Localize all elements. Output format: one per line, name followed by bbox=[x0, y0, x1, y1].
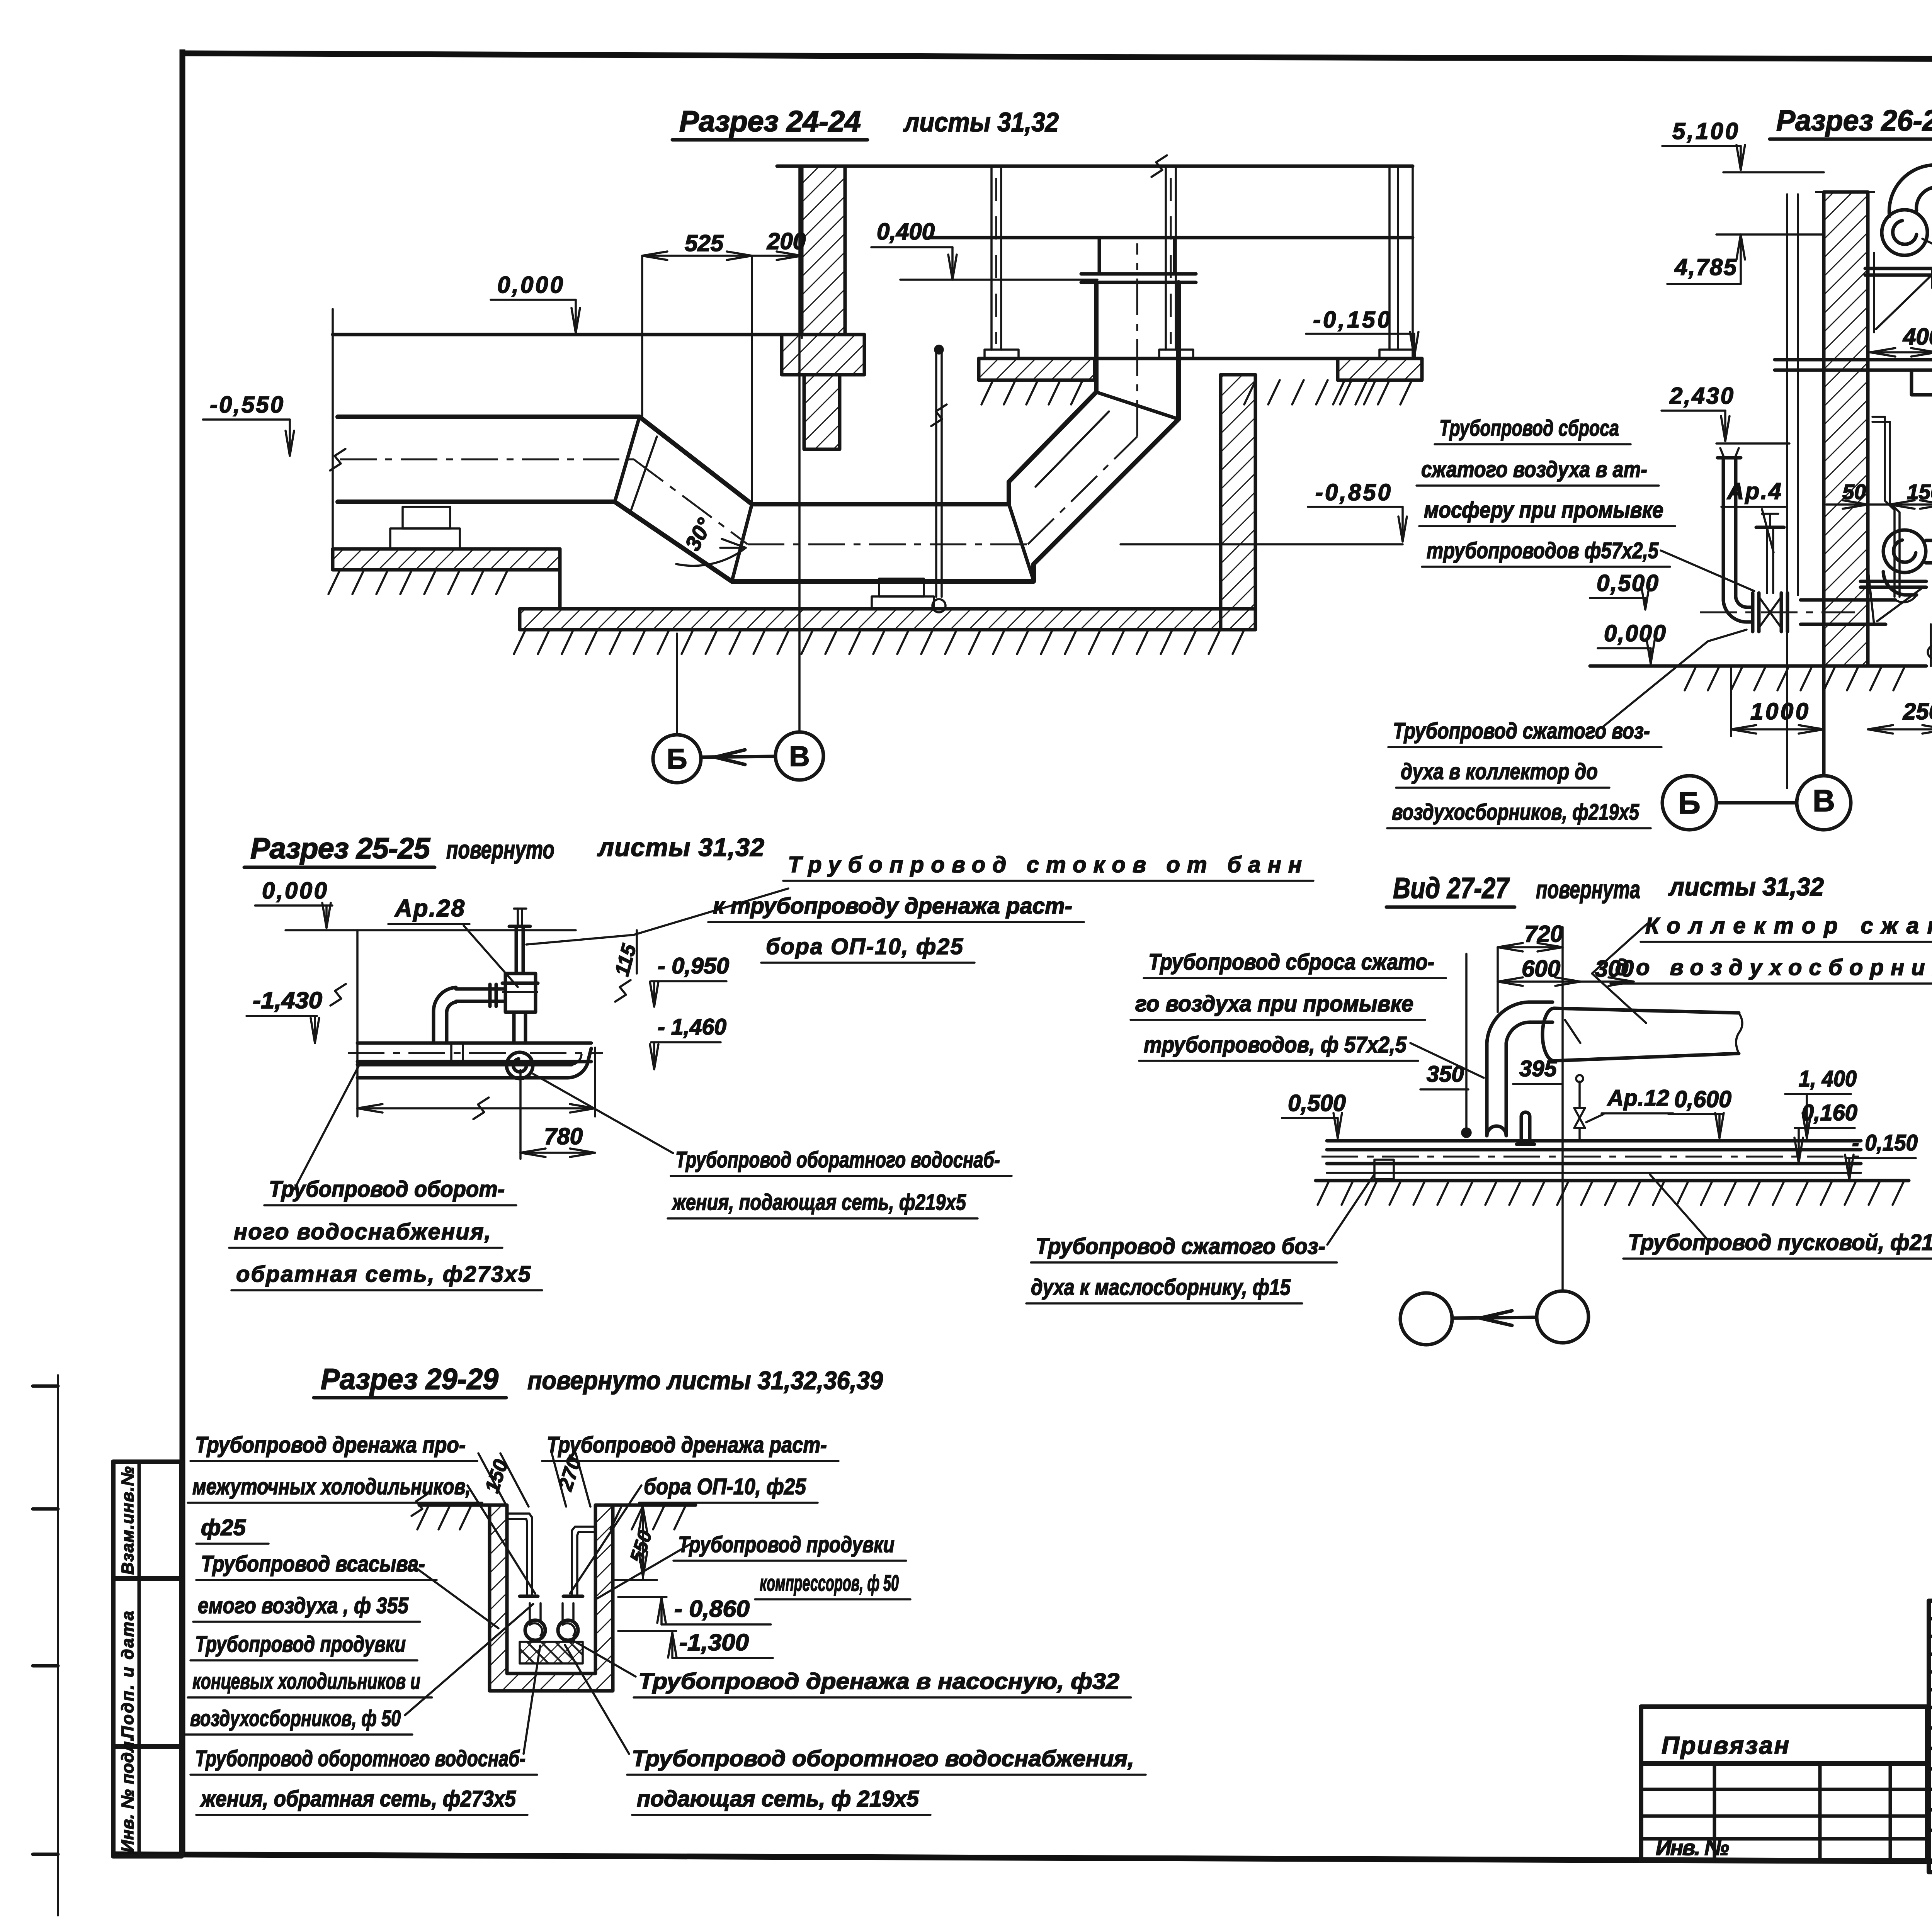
ground line left 29-29 bbox=[412, 1494, 490, 1529]
level mark -1.300 29-29 bbox=[618, 1629, 773, 1658]
svg-text:0,500: 0,500 bbox=[1288, 1090, 1346, 1116]
return water pipe 273x5 25-25 bbox=[357, 1043, 591, 1062]
svg-text:емого воздуха , ф 355: емого воздуха , ф 355 bbox=[198, 1593, 409, 1618]
svg-text:- 1,460: - 1,460 bbox=[658, 1014, 726, 1040]
svg-text:5,100: 5,100 bbox=[1672, 118, 1738, 144]
steel column A 24-24 bbox=[985, 166, 1019, 358]
blowoff pipe elbow 57x2.5 27-27 bbox=[1487, 1002, 1553, 1136]
svg-text:1, 400: 1, 400 bbox=[1799, 1066, 1857, 1091]
collector flange circle lower 26-26 bbox=[1883, 530, 1926, 573]
svg-text:Трубопровод оборотного во: Трубопровод оборотного водоснаб- bbox=[195, 1746, 526, 1771]
level mark -0.150 right bbox=[1306, 307, 1418, 357]
svg-text:духа в коллектор до: духа в коллектор до bbox=[1401, 759, 1598, 784]
steel column B 24-24 bbox=[1159, 166, 1193, 358]
view 29-29 title bbox=[314, 1363, 883, 1398]
svg-text:листы 31,32: листы 31,32 bbox=[597, 833, 764, 861]
svg-text:повернута: повернута bbox=[1536, 875, 1640, 904]
svg-text:Трубопровод всасыва-: Трубопровод всасыва- bbox=[201, 1551, 425, 1577]
sump block crosshatched 29-29 bbox=[520, 1642, 583, 1663]
svg-text:повернуто: повернуто bbox=[446, 835, 554, 864]
svg-text:Трубопровод продувки: Трубопровод продувки bbox=[195, 1632, 406, 1657]
pedestal support left 24-24 bbox=[390, 507, 460, 549]
svg-text:Трубопровод сброса: Трубопровод сброса bbox=[1439, 416, 1619, 441]
leaders 29-29 bbox=[405, 1485, 692, 1754]
label starting pipe 27-27 bbox=[1623, 1230, 1932, 1259]
hatched wall 26-26 bbox=[1816, 192, 1874, 776]
label drainage intermediate coolers bbox=[188, 1432, 482, 1544]
long section line through 27-27 bbox=[1561, 927, 1564, 1291]
svg-text:Инв. №: Инв. № bbox=[1656, 1835, 1729, 1860]
collector flange circle upper 26-26 bbox=[1882, 210, 1927, 255]
svg-text:повернуто листы 31,32,36,39: повернуто листы 31,32,36,39 bbox=[527, 1366, 883, 1395]
svg-text:Разрез 29-29: Разрез 29-29 bbox=[321, 1363, 498, 1396]
leader collector 27-27 bbox=[1592, 924, 1647, 1023]
valve Ar.12 27-27 bbox=[1574, 1075, 1585, 1141]
svg-text:Б: Б bbox=[1678, 786, 1701, 820]
dim 395 27-27 bbox=[1513, 1056, 1561, 1084]
valve stem 25-25 bbox=[509, 909, 530, 973]
leader oil collector 27-27 bbox=[1327, 1174, 1375, 1245]
dimension 780 25-25 bbox=[520, 1070, 595, 1159]
svg-text:Трубопровод сжатого боз-: Трубопровод сжатого боз- bbox=[1036, 1234, 1325, 1259]
label blowoff pipe to atmosphere bbox=[1417, 416, 1675, 567]
upper horizontal duct 24-24 bbox=[330, 417, 639, 502]
svg-text:0,160: 0,160 bbox=[1801, 1100, 1857, 1125]
level line 2.430 bbox=[1716, 442, 1789, 445]
angle 30 annotation bbox=[676, 514, 746, 566]
view 27-27 title bbox=[1386, 872, 1824, 907]
svg-text:жения, подающая сеть, ф219х5: жения, подающая сеть, ф219х5 bbox=[672, 1190, 966, 1215]
svg-text:Трубопровод сжатого воз-: Трубопровод сжатого воз- bbox=[1393, 719, 1650, 744]
svg-text:Разрез 24-24: Разрез 24-24 bbox=[679, 105, 861, 138]
svg-text:2,430: 2,430 bbox=[1669, 383, 1733, 409]
dimension 250 26-26 bbox=[1868, 668, 1932, 736]
section symbol B-V 24-24 bbox=[653, 168, 823, 783]
level mark 5.100 bbox=[1662, 118, 1745, 170]
valve centerline 26-26 bbox=[1700, 612, 1855, 613]
level mark -1.460 25-25 bbox=[650, 1014, 726, 1069]
pipe stub to air receiver 26-26 bbox=[1926, 537, 1932, 566]
label Ar.4 26-26 bbox=[1721, 478, 1785, 552]
ground line 26-26 bbox=[1590, 666, 1932, 690]
svg-text:0,000: 0,000 bbox=[497, 272, 563, 298]
centerline extension to -0.850 bbox=[1121, 543, 1403, 545]
title block outer frame bbox=[1929, 1601, 1932, 1872]
level mark 0.600 27-27 bbox=[1668, 1086, 1731, 1138]
supply water pipe 219x5 25-25 bbox=[357, 1048, 591, 1078]
attachment table left of title block bbox=[1641, 1707, 1927, 1860]
svg-text:к трубопроводу дренажа ра: к трубопроводу дренажа раст- bbox=[713, 894, 1072, 919]
svg-text:Ар.4: Ар.4 bbox=[1726, 478, 1781, 504]
leader from return label to pipe end 25-25 bbox=[294, 1066, 359, 1189]
label collector to receivers 27-27 bbox=[1611, 913, 1932, 984]
label drainage OP-10 right bbox=[542, 1432, 838, 1503]
pit walls hatched 29-29 bbox=[490, 1505, 613, 1691]
drain pipe right in pit 29-29 bbox=[563, 1527, 595, 1596]
floor slab -0.150 with hatching bbox=[979, 358, 1422, 404]
leader starting pipe 27-27 bbox=[1650, 1174, 1708, 1240]
drain pipe left in pit 29-29 bbox=[507, 1514, 538, 1596]
label air pipe to oil collector 27-27 bbox=[1026, 1234, 1337, 1303]
steel column C right edge 24-24 bbox=[1379, 166, 1415, 358]
level mark 0.000 26-26 bbox=[1598, 620, 1666, 664]
ground line right 29-29 bbox=[611, 1505, 696, 1529]
svg-text:Взам.инв.№: Взам.инв.№ bbox=[118, 1466, 137, 1575]
svg-text:0,000: 0,000 bbox=[1604, 620, 1666, 646]
svg-text:трубопроводов, ф 57х2,5: трубопроводов, ф 57х2,5 bbox=[1144, 1032, 1407, 1057]
section symbol B-V 26-26 bbox=[1662, 776, 1851, 830]
svg-text:Привязан: Привязан bbox=[1662, 1731, 1789, 1759]
dimension 50 150 26-26 bbox=[1826, 480, 1932, 509]
duct centerlines 24-24 bbox=[340, 243, 1137, 544]
level mark 0.500 26-26 bbox=[1590, 570, 1658, 610]
svg-text:Трубопровод продувки: Трубопровод продувки bbox=[678, 1532, 895, 1557]
level mark 0.000 bbox=[491, 272, 580, 333]
svg-text:жения, обратная сеть, ф273: жения, обратная сеть, ф273х5 bbox=[200, 1786, 516, 1811]
svg-text:Трубопровод пусковой, ф219: Трубопровод пусковой, ф219х5 bbox=[1628, 1230, 1932, 1255]
ceiling line 24-24 bbox=[777, 155, 1413, 177]
hatched wall column 24-24 bbox=[782, 166, 864, 449]
support bracket lower 26-26 bbox=[1861, 568, 1926, 624]
svg-text:Разрез 25-25: Разрез 25-25 bbox=[250, 832, 431, 865]
dimension 400 bracket bbox=[1868, 324, 1932, 357]
level mark 2.430 bbox=[1662, 383, 1733, 441]
svg-text:- 0,860: - 0,860 bbox=[674, 1596, 750, 1622]
soil hatching under pit bbox=[328, 380, 1376, 654]
leader from supply label to flange 25-25 bbox=[533, 1074, 673, 1153]
svg-text:воздухосборников, ф 50: воздухосборников, ф 50 bbox=[190, 1706, 401, 1731]
svg-text:ного водоснабжения,: ного водоснабжения, bbox=[234, 1219, 491, 1244]
svg-text:Трубопровод оборот-: Трубопровод оборот- bbox=[269, 1177, 505, 1202]
roof level line 26-26 bbox=[1723, 171, 1824, 173]
funnel circles 29-29 bbox=[525, 1603, 578, 1640]
level mark 0.500 27-27 bbox=[1282, 1090, 1346, 1138]
dimension 720 27-27 bbox=[1498, 921, 1563, 1012]
svg-text:подающая сеть, ф 219х5: подающая сеть, ф 219х5 bbox=[637, 1786, 919, 1811]
floor slab mid level 26-26 bbox=[1775, 360, 1932, 395]
elbow down left 25-25 bbox=[434, 987, 456, 1043]
level mark 4.785 arrow up bbox=[1667, 234, 1824, 284]
label suction air pipe bbox=[193, 1551, 437, 1622]
capped stub pipe 27-27 bbox=[1517, 1112, 1534, 1144]
extension and dim overall 25-25 bbox=[357, 930, 595, 1119]
svg-text:Трубопровод оборатного водо: Трубопровод оборатного водоснаб- bbox=[675, 1147, 1000, 1172]
dimension 600 300 27-27 bbox=[1498, 956, 1634, 986]
leader from sewage label to valve 25-25 bbox=[526, 889, 788, 945]
svg-text:Инв. № подл.: Инв. № подл. bbox=[118, 1736, 137, 1852]
label supply water 25-25 bbox=[668, 1147, 1012, 1218]
pedestal support right 24-24 bbox=[872, 579, 934, 609]
pit right wall hatched bbox=[1221, 375, 1255, 630]
level mark -0.550 bbox=[203, 392, 294, 456]
svg-text:250: 250 bbox=[1903, 698, 1932, 724]
floor line 0.000 25-25 bbox=[286, 929, 576, 931]
leader blowoff 27-27 bbox=[1410, 1043, 1484, 1078]
left stamp strip frame bbox=[113, 1462, 182, 1856]
label blowoff pipe 27-27 bbox=[1131, 950, 1446, 1061]
level mark 0.000 25-25 bbox=[255, 878, 332, 928]
drain pipe dropping into pit 24-24 bbox=[931, 346, 947, 612]
valve body 25-25 bbox=[502, 973, 538, 1012]
svg-text:Вид 27-27: Вид 27-27 bbox=[1393, 872, 1510, 905]
svg-text:бора ОП-10, ф25: бора ОП-10, ф25 bbox=[766, 934, 963, 959]
svg-text:мосферу при промывке: мосферу при промывке bbox=[1424, 498, 1663, 523]
svg-text:В: В bbox=[789, 740, 810, 772]
floor line level 0.000 bbox=[333, 309, 782, 549]
svg-text:Трубопровод сброса сжато-: Трубопровод сброса сжато- bbox=[1148, 950, 1434, 975]
svg-text:Ар.12: Ар.12 bbox=[1607, 1086, 1669, 1111]
view 24-24 title bbox=[672, 105, 1059, 140]
level mark -1.430 25-25 bbox=[247, 987, 322, 1043]
twin pipes horizontal 27-27 bbox=[1321, 1141, 1866, 1173]
valve left branch with flanges 25-25 bbox=[456, 984, 505, 1006]
svg-text:780: 780 bbox=[544, 1123, 583, 1149]
svg-text:- 0,150: - 0,150 bbox=[1852, 1130, 1918, 1155]
label return water supply 25-25 bbox=[229, 1177, 542, 1290]
leader to collector circle 26-26 bbox=[1922, 239, 1932, 301]
svg-text:В: В bbox=[1813, 783, 1835, 818]
svg-text:-1,300: -1,300 bbox=[679, 1629, 749, 1655]
svg-text:Трубопровод дренажа раст-: Трубопровод дренажа раст- bbox=[547, 1432, 827, 1458]
dimension 115 rotated 25-25 bbox=[611, 930, 641, 979]
pipe riser along wall 26-26 bbox=[1787, 194, 1798, 788]
level mark 0.400 bbox=[871, 219, 1097, 280]
floor line 27-27 bbox=[1316, 1181, 1909, 1205]
svg-text:го воздуха при промывке: го воздуха при промывке bbox=[1135, 991, 1413, 1016]
pipes centerline 25-25 bbox=[348, 1052, 603, 1054]
slanted dim extensions 150 270 29-29 bbox=[478, 1453, 590, 1507]
svg-text:ф25: ф25 bbox=[201, 1515, 246, 1540]
svg-text:воздухосборников, ф219х5: воздухосборников, ф219х5 bbox=[1392, 800, 1639, 825]
svg-text:листы 31,32: листы 31,32 bbox=[1668, 872, 1824, 901]
vertical duct with flange 24-24 bbox=[1081, 238, 1196, 419]
blowoff pipe 50mm 26-26 bbox=[1872, 417, 1900, 597]
level mark -0.850 right bbox=[1308, 479, 1407, 542]
svg-text:Ар.28: Ар.28 bbox=[394, 895, 465, 922]
level mark 1.400 27-27 bbox=[1785, 1066, 1857, 1138]
svg-text:компрессоров, ф 50: компрессоров, ф 50 bbox=[760, 1571, 899, 1596]
label drainage to pump station bbox=[634, 1669, 1131, 1697]
dim 350 27-27 bbox=[1420, 1062, 1468, 1089]
svg-text:-0,550: -0,550 bbox=[210, 392, 283, 418]
valve bottom connection 25-25 bbox=[507, 1012, 533, 1079]
dimension 525 and 200 bbox=[642, 228, 806, 506]
lower horizontal duct 24-24 bbox=[732, 504, 1034, 581]
label blow pipe compressors bbox=[673, 1532, 910, 1599]
svg-text:межуточных холодильников,: межуточных холодильников, bbox=[192, 1474, 471, 1499]
svg-text:сжатого воздуха в ат-: сжатого воздуха в ат- bbox=[1421, 457, 1647, 482]
svg-text:0,600: 0,600 bbox=[1674, 1086, 1731, 1112]
svg-text:-0,150: -0,150 bbox=[1313, 307, 1390, 333]
svg-text:-0,850: -0,850 bbox=[1315, 479, 1391, 505]
level mark -0.860 29-29 bbox=[618, 1596, 771, 1624]
svg-text:0,000: 0,000 bbox=[262, 878, 327, 904]
level mark -0.150 27-27 bbox=[1845, 1130, 1918, 1180]
svg-text:бора ОП-10, ф25: бора ОП-10, ф25 bbox=[644, 1474, 806, 1499]
svg-text:концевых холодильников и: концевых холодильников и bbox=[192, 1669, 420, 1694]
dimension 1000 26-26 bbox=[1731, 668, 1824, 736]
svg-text:- 0,950: - 0,950 bbox=[658, 953, 729, 979]
riser elbow left 26-26 bbox=[1718, 448, 1753, 622]
support bracket upper 26-26 bbox=[1865, 253, 1932, 332]
label return water 29-29 bbox=[190, 1746, 537, 1815]
beam soffit line 24-24 bbox=[929, 236, 1413, 240]
svg-text:395: 395 bbox=[1519, 1056, 1557, 1081]
gate valve Ar.4 26-26 bbox=[1753, 514, 1787, 632]
svg-text:Трубопровод дренажа про-: Трубопровод дренажа про- bbox=[195, 1432, 466, 1458]
duct elbow right 24-24 bbox=[1009, 392, 1179, 581]
duct 30deg bend segment 24-24 bbox=[615, 417, 752, 581]
label supply water 29-29 bbox=[627, 1746, 1146, 1815]
label Ar.12 27-27 bbox=[1586, 1086, 1673, 1122]
svg-text:Трубопровод оборотного: Трубопровод оборотного водоснабжения, bbox=[632, 1746, 1134, 1771]
view 25-25 title bbox=[244, 832, 764, 867]
thin rod with ball 27-27 bbox=[1462, 954, 1471, 1137]
svg-text:листы 31,32: листы 31,32 bbox=[903, 107, 1059, 137]
svg-text:-1,430: -1,430 bbox=[253, 987, 322, 1013]
left margin sheet-edge ticks bbox=[33, 1375, 58, 1915]
level mark 0.160 27-27 bbox=[1794, 1100, 1857, 1163]
signature table grid bbox=[1929, 1601, 1932, 1872]
view 26-26 title bbox=[1770, 104, 1932, 139]
svg-text:духа к маслосборнику, ф15: духа к маслосборнику, ф15 bbox=[1031, 1275, 1291, 1300]
starting pipe small riser 26-26 bbox=[1928, 624, 1932, 666]
label blow pipe end coolers bbox=[185, 1632, 432, 1735]
collector pipe 377x6 27-27 bbox=[1543, 1008, 1742, 1061]
dim 550 rotated 29-29 bbox=[613, 1505, 657, 1580]
pit bottom slab hatched bbox=[520, 609, 1255, 630]
label pipe to collector bbox=[1387, 719, 1662, 828]
svg-text:Б: Б bbox=[667, 743, 687, 775]
svg-text:525: 525 bbox=[685, 230, 724, 256]
svg-text:Разрез 26-26: Разрез 26-26 bbox=[1776, 104, 1932, 137]
leader from label to valve 26-26 bbox=[1604, 630, 1747, 726]
section circles pair 27-27 bbox=[1400, 1291, 1588, 1345]
compressed air pipe elbow top 26-26 bbox=[1889, 158, 1932, 216]
svg-text:4,785: 4,785 bbox=[1674, 254, 1737, 280]
pipe support block 27-27 bbox=[1374, 1160, 1394, 1179]
svg-text:Трубопровод дренажа в: Трубопровод дренажа в насосную, ф32 bbox=[638, 1669, 1119, 1694]
break mark on ext line 25-25 bbox=[330, 984, 346, 1006]
label Ar.28 25-25 bbox=[388, 895, 518, 987]
svg-text:400: 400 bbox=[1903, 324, 1932, 350]
leader from blowoff label to pipe 26-26 bbox=[1661, 550, 1754, 591]
pipe to collector through wall 26-26 bbox=[1801, 572, 1917, 624]
svg-text:Подп. и дата: Подп. и дата bbox=[118, 1611, 137, 1738]
label sewage from baths bbox=[708, 852, 1313, 963]
pit left floor strip hatched bbox=[333, 549, 560, 609]
level mark -0.950 25-25 bbox=[615, 953, 729, 1007]
svg-text:трубопроводов ф57х2,5: трубопроводов ф57х2,5 bbox=[1427, 538, 1659, 563]
svg-text:0,400: 0,400 bbox=[877, 219, 935, 245]
